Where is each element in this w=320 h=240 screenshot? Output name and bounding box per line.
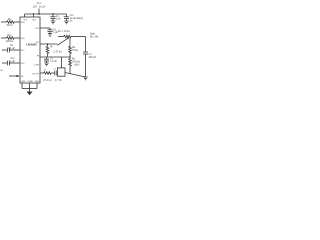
potentiometer RV body (58, 35, 86, 38)
svg-text:100 kΩ: 100 kΩ (6, 40, 14, 43)
wire OUT pin (40, 43, 58, 45)
node junction RF top (47, 43, 49, 45)
label shutdown input (0, 70, 3, 72)
ground under CS2 (64, 21, 68, 24)
ground under CS1 (51, 21, 55, 24)
ground under CF (44, 63, 48, 66)
capacitor CF below FB wire (44, 57, 49, 63)
ground under CB (48, 34, 52, 37)
speaker box (57, 68, 65, 76)
svg-text:VDD: VDD (37, 1, 42, 5)
wire GND stub 2 (29, 83, 31, 89)
svg-text:8Ω, 5W: 8Ω, 5W (90, 35, 99, 38)
svg-text:CC: CC (54, 69, 56, 71)
node VDD supply label (33, 1, 46, 9)
svg-text:RIN: RIN (8, 18, 12, 21)
label CO value (89, 53, 97, 59)
wire speaker top to FB wire (61, 57, 63, 68)
svg-text:1 µF: 1 µF (56, 18, 61, 21)
svg-text:RIN2: RIN2 (7, 34, 11, 37)
wire GND drop (29, 89, 31, 92)
wire VDD pin stub 1 (24, 14, 26, 17)
capacitor CIN2 series with wire (2, 61, 20, 66)
label speaker out (90, 33, 99, 39)
resistor R2 100k with wire (1, 37, 20, 40)
label CB value (53, 28, 58, 34)
label CS2 value (70, 14, 83, 23)
wire RB bottom to speaker line (69, 68, 71, 74)
svg-text:RF: RF (50, 46, 54, 49)
wire speaker to output line (65, 73, 86, 78)
wire BYPASS pin to CB (40, 27, 50, 29)
svg-text:2.37 kΩ: 2.37 kΩ (54, 51, 63, 54)
svg-text:220 µF: 220 µF (89, 56, 97, 59)
wire VDD pin stub 2 (33, 14, 35, 17)
wire GND bus (22, 88, 37, 90)
wire output down (85, 37, 87, 53)
ground main triangle (27, 92, 33, 96)
svg-text:EX OUT: EX OUT (32, 73, 40, 75)
svg-text:COMP: COMP (34, 64, 40, 66)
svg-text:4.7 nF: 4.7 nF (55, 79, 62, 82)
svg-text:2x: 2x (70, 20, 73, 23)
potentiometer wiper arrow (58, 37, 70, 45)
capacitor CB bypass (48, 28, 53, 34)
svg-text:12V - 16.2V: 12V - 16.2V (33, 6, 46, 9)
svg-text:RC: RC (44, 69, 46, 71)
label CS1 value (56, 15, 61, 21)
svg-text:GND: GND (21, 81, 26, 83)
node junction dot at CS1 (52, 13, 54, 15)
capacitor CS1 1uF (51, 14, 56, 21)
ground under CO (83, 77, 87, 80)
svg-text:GND: GND (35, 81, 40, 83)
arrow shutdown into SD pin (9, 75, 20, 78)
label RA value (72, 46, 79, 52)
wire VDD rail (25, 13, 67, 15)
svg-text:PGND: PGND (27, 81, 33, 83)
svg-text:SD: SD (0, 70, 3, 72)
svg-text:1.0 µF: 1.0 µF (50, 60, 57, 63)
wire GND stub 3 (36, 83, 38, 89)
svg-text:(8Ω): (8Ω) (75, 64, 80, 67)
svg-text:1 µF: 1 µF (10, 60, 15, 63)
label RB value (72, 58, 81, 64)
capacitor CS2 10uF (64, 14, 69, 21)
node junction FB/RA (69, 56, 71, 58)
label CF value (50, 57, 57, 63)
wire GND stub 1 (21, 83, 23, 89)
svg-text:27.4 kΩ: 27.4 kΩ (43, 79, 52, 82)
wire FB pin (40, 56, 70, 58)
svg-text:33 kΩ: 33 kΩ (6, 24, 13, 27)
capacitor CO output electrolytic (83, 52, 88, 77)
resistor RE series (44, 72, 52, 75)
resistor RB feedback lower (69, 57, 72, 69)
svg-text:RV = 10 kΩ: RV = 10 kΩ (58, 30, 70, 33)
svg-text:75 kΩ: 75 kΩ (72, 49, 79, 52)
capacitor CIN1 series with wire (2, 48, 20, 53)
resistor RA feedback upper (69, 38, 72, 57)
capacitor CE series (51, 71, 57, 76)
wire VDD vertical drop (38, 9, 40, 15)
node junction dot stub2 (33, 13, 34, 14)
node junction dot at VDD drop (38, 13, 40, 15)
svg-text:0.1 µF: 0.1 µF (8, 47, 15, 50)
resistor R1 33k with wire (1, 21, 20, 24)
IC U1 LM4950 body (20, 17, 40, 83)
resistor RF gain (46, 44, 49, 57)
wire EX OUT pin (40, 72, 44, 74)
